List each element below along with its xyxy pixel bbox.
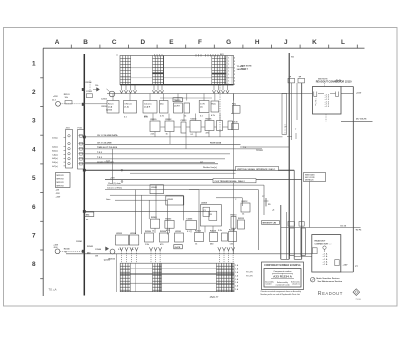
- diode arrows below top grids: [120, 85, 229, 94]
- title block component number example: [262, 262, 304, 290]
- wire vertical drop C1: [111, 149, 113, 184]
- wire heavy vertical bus J column: [288, 53, 290, 259]
- svg-text:+ 1 A: + 1 A: [323, 263, 328, 266]
- svg-text:R(1): R(1): [232, 104, 236, 106]
- transistor Q2325 cluster left: [53, 244, 110, 261]
- svg-text:(1): (1): [200, 107, 203, 109]
- svg-text:1 A: 1 A: [235, 278, 239, 281]
- resistor R2301 box: [151, 217, 160, 228]
- svg-text:8: 8: [32, 261, 36, 268]
- svg-text:1: 1: [228, 77, 229, 79]
- label near J bus top: [291, 57, 294, 59]
- svg-text:R2301: R2301: [151, 217, 158, 219]
- resistor R2303 box: [165, 218, 174, 228]
- svg-text:U2308: U2308: [201, 203, 208, 205]
- resistor R2126 box: [199, 101, 209, 113]
- svg-text:A-5(x): A-5(x): [52, 157, 58, 160]
- switch box S2120: [107, 101, 119, 114]
- wire gate bus 4: [106, 198, 168, 234]
- svg-text:1: 1: [228, 84, 229, 86]
- parts cluster B2 column: [85, 81, 109, 108]
- left voltage labels row 5: [56, 189, 61, 198]
- svg-text:+15V: +15V: [110, 178, 115, 180]
- svg-text:A23 R1234 A: A23 R1234 A: [273, 275, 292, 279]
- svg-text:TIME-SLOT PULSES: TIME-SLOT PULSES: [97, 147, 118, 149]
- svg-text:(1-4) R: (1-4) R: [144, 106, 151, 109]
- value labels smudge: [86, 113, 245, 251]
- wire bus blanking: [84, 162, 218, 164]
- note box parts list: [56, 173, 71, 188]
- top border line with ticks: [43, 45, 365, 49]
- svg-text:G: G: [226, 39, 231, 46]
- wire row6 to row7 connectors: [155, 226, 234, 233]
- svg-text:(1-4): (1-4): [125, 106, 130, 109]
- resistor R2332 box: [195, 231, 204, 242]
- shield loop H column: [282, 93, 287, 134]
- capacitor C2121 box: [124, 101, 137, 119]
- svg-text:+15V: +15V: [56, 197, 61, 199]
- svg-text:T-S 2: T-S 2: [97, 152, 103, 154]
- svg-text:10k: 10k: [65, 97, 69, 99]
- svg-text:+5: +5: [272, 209, 275, 211]
- pin numbers right of top grid: [228, 56, 246, 86]
- wire +15V feed: [341, 119, 373, 122]
- svg-text:TO J75: TO J75: [246, 272, 254, 274]
- svg-text:5: 5: [32, 175, 36, 182]
- svg-text:1 A: 1 A: [235, 271, 239, 274]
- connector strip J2101 pins: [66, 128, 82, 168]
- svg-text:J: J: [284, 39, 288, 46]
- svg-text:SEE NOTE: SEE NOTE: [318, 78, 328, 80]
- svg-text:1: 1: [228, 81, 229, 83]
- left border line with ticks: [40, 48, 43, 296]
- resistor R2236 box: [205, 119, 214, 131]
- capacitor C2239 box: [228, 121, 233, 130]
- svg-text:470: 470: [160, 243, 164, 246]
- wire vertical signal heavy: [84, 169, 294, 171]
- svg-text:2: 2: [234, 84, 235, 86]
- svg-text:U2240: U2240: [151, 186, 158, 189]
- label dark sig: [85, 212, 94, 217]
- label timing dark: [173, 98, 182, 102]
- svg-text:TO J76: TO J76: [246, 275, 254, 277]
- wire vertical bottom left: [115, 254, 117, 292]
- wire vertical J extra: [285, 212, 287, 259]
- svg-text:R2315: R2315: [238, 218, 245, 220]
- svg-text:A-7(x): A-7(x): [52, 165, 58, 168]
- svg-text:R2230: R2230: [151, 119, 158, 121]
- svg-text:U2242: U2242: [167, 198, 174, 201]
- svg-text:R2332: R2332: [195, 231, 202, 233]
- svg-text:C2105: C2105: [86, 91, 93, 93]
- wire K box to rail: [325, 83, 354, 121]
- label R2150: [109, 259, 116, 261]
- resistor R2313 box: [231, 214, 238, 228]
- transistor Q2101: [52, 96, 60, 106]
- svg-text:Column: Column: [144, 104, 152, 106]
- svg-text:1k: 1k: [132, 249, 135, 251]
- part number text: [210, 296, 219, 299]
- resistor R2101 cluster: [60, 88, 84, 105]
- resistor R2127 box: [211, 101, 219, 112]
- wire vertical drop H1: [293, 170, 295, 259]
- transistor Q2105: [106, 89, 115, 112]
- svg-text:-15V: -15V: [56, 193, 61, 195]
- svg-text:TP2201: TP2201: [256, 150, 264, 152]
- svg-text:Static Sensitive Devices: Static Sensitive Devices: [316, 277, 340, 280]
- svg-text:1 A: 1 A: [235, 288, 239, 291]
- svg-text:6: 6: [32, 204, 36, 211]
- wire row2 to row3 connectors: [153, 114, 220, 121]
- svg-text:circuit no: circuit no: [292, 283, 300, 286]
- IC U2110 character generator outer box: [120, 56, 234, 85]
- svg-text:CH 2 TRIGGER SIGNAL DIAG 2: CH 2 TRIGGER SIGNAL DIAG 2: [215, 180, 246, 183]
- wire thin vertical J2: [296, 83, 298, 120]
- svg-text:L: L: [341, 39, 345, 46]
- svg-text:MFR XX: MFR XX: [57, 185, 65, 187]
- svg-text:2.2k: 2.2k: [151, 134, 156, 136]
- resistor pack R2130 hatch column: [212, 56, 227, 85]
- svg-text:2: 2: [234, 67, 235, 69]
- svg-text:10k: 10k: [95, 85, 99, 87]
- svg-text:0.1: 0.1: [200, 116, 204, 118]
- svg-text:R9: R9: [268, 204, 270, 206]
- parts on F1 drop: [262, 196, 270, 206]
- svg-text:C2103: C2103: [101, 98, 108, 100]
- svg-text:Gate: Gate: [106, 198, 111, 201]
- svg-text:4.7k: 4.7k: [211, 114, 216, 117]
- wire thin vertical J1: [290, 83, 292, 140]
- test point wire row 5: [240, 147, 289, 152]
- wire long vertical G-H boundary: [232, 94, 239, 254]
- svg-text:Column x RT(1): Column x RT(1): [107, 188, 122, 190]
- svg-text:2: 2: [234, 71, 235, 73]
- title block footnote: [261, 290, 302, 296]
- svg-text:B(1): B(1): [220, 54, 224, 56]
- test point TP2111 box: [298, 77, 305, 83]
- svg-text:+15V: +15V: [356, 92, 362, 94]
- svg-text:C1: C1: [203, 210, 205, 212]
- svg-text:2: 2: [32, 89, 36, 96]
- svg-text:CH 1 COLUMN DATA: CH 1 COLUMN DATA: [97, 134, 118, 137]
- capacitor C2310 box: [203, 207, 210, 216]
- page number: [356, 299, 362, 301]
- svg-text:T: T: [295, 129, 297, 131]
- svg-text:1 A: 1 A: [235, 264, 239, 267]
- svg-text:1k: 1k: [195, 244, 198, 246]
- svg-text:E: E: [169, 39, 174, 46]
- svg-text:R2341: R2341: [76, 240, 83, 243]
- svg-text:4.7k: 4.7k: [166, 229, 171, 232]
- svg-text:0.1: 0.1: [191, 134, 195, 136]
- svg-text:2: 2: [234, 64, 235, 66]
- wire vertical drop G1: [263, 185, 265, 215]
- resistor R2338 box: [229, 230, 237, 242]
- svg-text:C2130: C2130: [232, 122, 238, 124]
- wire bus time slot 1: [84, 147, 262, 149]
- svg-text:680: 680: [210, 244, 214, 246]
- svg-text:R2303: R2303: [165, 218, 172, 220]
- svg-text:H: H: [255, 39, 260, 46]
- svg-text:7: 7: [32, 233, 36, 240]
- svg-text:W2: W2: [291, 57, 294, 59]
- svg-text:number: number: [265, 284, 272, 286]
- svg-text:2: 2: [234, 77, 235, 79]
- static sensitive devices note: [311, 277, 343, 283]
- svg-text:1k: 1k: [184, 116, 187, 118]
- amplifier box U2240: [150, 185, 164, 194]
- capacitor C2336 box: [222, 233, 228, 241]
- svg-text:U2324: U2324: [130, 232, 137, 235]
- svg-text:A-2(x): A-2(x): [52, 146, 58, 149]
- svg-text:U2235: U2235: [191, 119, 198, 121]
- svg-text:C2305: C2305: [186, 218, 193, 220]
- svg-text:R2150: R2150: [109, 259, 116, 261]
- svg-text:VERTICAL SIGNAL INTERFACE DI: VERTICAL SIGNAL INTERFACE DIAG 1: [237, 168, 276, 171]
- note box diag reference: [304, 173, 326, 182]
- wire vertical drop F1: [189, 190, 258, 250]
- wire connector to rail: [341, 264, 359, 272]
- capacitor C2125 box: [174, 103, 183, 113]
- svg-text:MFR XX: MFR XX: [57, 182, 65, 184]
- svg-text:1k: 1k: [166, 134, 169, 136]
- svg-text:1k: 1k: [242, 214, 245, 216]
- svg-text:number (if used): number (if used): [276, 284, 290, 286]
- wire secondary signal: [130, 172, 236, 174]
- wire gate bus 1: [107, 182, 264, 185]
- wire row3 link segments: [161, 126, 234, 128]
- svg-text:1W: 1W: [95, 256, 98, 258]
- wire vertical note box drop: [309, 182, 311, 228]
- svg-text:xx: xx: [116, 55, 118, 57]
- IC U2324 box: [129, 232, 139, 245]
- resistor R2125 box: [184, 103, 190, 113]
- svg-text:1: 1: [32, 60, 36, 67]
- svg-text:SEE NOTE: SEE NOTE: [241, 66, 252, 68]
- wire gate bus 2: [105, 188, 199, 190]
- svg-text:1: 1: [228, 61, 229, 63]
- svg-text:R2340: R2340: [64, 248, 71, 251]
- svg-text:0.1: 0.1: [187, 231, 191, 233]
- resistor R2326 box: [145, 231, 154, 246]
- wire right vertical K rail: [341, 87, 353, 273]
- svg-text:R2101: R2101: [64, 94, 71, 96]
- hatch column bottom grid B: [153, 263, 162, 292]
- svg-text:A 1(v): A 1(v): [52, 137, 58, 140]
- hatch column bottom grid A: [120, 263, 130, 292]
- svg-text:1k: 1k: [65, 252, 68, 254]
- svg-text:R2342: R2342: [87, 245, 94, 248]
- svg-text:2: 2: [234, 61, 235, 63]
- wire box drops: [155, 131, 220, 149]
- svg-text:Divider line(s): Divider line(s): [203, 166, 217, 169]
- pin labels right of bottom grid: [235, 264, 253, 291]
- readout connector J2170 box: [312, 235, 341, 272]
- svg-text:TO P5: TO P5: [356, 229, 363, 231]
- wire vertical bus J3: [301, 83, 303, 259]
- schematic title READOUT: [318, 291, 343, 297]
- resistor R2232 box: [165, 119, 174, 132]
- svg-text:See Maintenance Section: See Maintenance Section: [318, 280, 343, 283]
- svg-text:1: 1: [228, 67, 229, 69]
- svg-text:2.7k: 2.7k: [160, 115, 165, 117]
- svg-text:(1-4): (1-4): [108, 106, 113, 109]
- svg-text:TIMING: TIMING: [174, 100, 181, 102]
- connector pin labels: [52, 137, 65, 168]
- resistor pack R2120 hatch column: [153, 56, 164, 85]
- svg-text:71-18: 71-18: [356, 299, 362, 301]
- resistor R2315 box: [238, 218, 245, 229]
- resistor R2124 box: [160, 101, 169, 114]
- svg-text:1: 1: [228, 64, 229, 66]
- svg-text:1 A: 1 A: [235, 281, 239, 284]
- svg-text:C2344: C2344: [95, 248, 102, 251]
- svg-text:Chan (1) data: Chan (1) data: [108, 182, 122, 185]
- svg-text:INTENSITY LIM: INTENSITY LIM: [262, 223, 276, 225]
- diode arrows above bottom grid: [120, 247, 235, 263]
- svg-text:K: K: [312, 39, 317, 46]
- svg-text:U2330: U2330: [175, 231, 182, 233]
- svg-text:CH 2 COLUMN: CH 2 COLUMN: [97, 142, 112, 144]
- svg-text:+ 1 A: + 1 A: [323, 260, 328, 263]
- svg-text:xx: xx: [285, 126, 288, 128]
- wire bar outlet: [294, 256, 312, 258]
- interface marks J column: [285, 124, 298, 139]
- resistor R2334 box: [210, 230, 218, 242]
- resistor R2328 box: [160, 231, 169, 242]
- callout label trigger signal: [213, 179, 256, 183]
- resistor R2230 box: [150, 119, 160, 132]
- svg-text:+ 1 2: + 1 2: [325, 106, 330, 108]
- wire DC volts horizontal: [281, 225, 362, 231]
- wire long row 7 bus: [66, 253, 312, 255]
- svg-text:R2334: R2334: [210, 230, 217, 233]
- svg-text:4: 4: [32, 146, 36, 153]
- svg-text:READOUT: READOUT: [318, 291, 343, 297]
- wire trigger signal: [105, 178, 302, 183]
- svg-text:+15V: +15V: [53, 96, 58, 98]
- svg-text:1 A: 1 A: [235, 285, 239, 288]
- revision diamond symbol: [353, 289, 360, 296]
- capacitor C2305 box: [186, 218, 197, 229]
- IC U2235 box: [190, 119, 201, 132]
- svg-text:2: 2: [234, 58, 235, 60]
- resistor R2312 box: [241, 201, 250, 212]
- svg-text:1: 1: [228, 58, 229, 60]
- wire row5 upper: [84, 161, 215, 163]
- wire loop verticals D-E: [136, 185, 199, 234]
- resistor R2122 box: [143, 101, 157, 119]
- svg-text:1: 1: [228, 74, 229, 76]
- wire bus channel 1 data: [84, 134, 282, 137]
- resistor R2311 box: [209, 211, 217, 220]
- svg-text:+15V: +15V: [343, 264, 349, 266]
- svg-text:ROW DATA: ROW DATA: [210, 141, 222, 144]
- svg-text:5 Reset: 5 Reset: [125, 103, 132, 106]
- svg-text:COMPONENT NUMBER EXAMPLE: COMPONENT NUMBER EXAMPLE: [264, 264, 301, 267]
- svg-text:B-2(x): B-2(x): [52, 151, 58, 153]
- svg-text:D-6(x): D-6(x): [52, 162, 58, 164]
- svg-text:R2326: R2326: [145, 231, 152, 233]
- wire J pair bottom links: [281, 258, 302, 260]
- svg-text:1 A: 1 A: [235, 268, 239, 271]
- wire bus strobe: [84, 157, 225, 159]
- top pins above grids: [116, 54, 224, 56]
- svg-text:T-S 3: T-S 3: [97, 157, 103, 159]
- svg-text:1 A: 1 A: [235, 274, 239, 277]
- svg-text:xx: xx: [86, 219, 89, 221]
- resistor R2128 box: [232, 104, 240, 114]
- row numbers 1-8: [32, 60, 36, 268]
- svg-text:TO △A: TO △A: [49, 287, 57, 291]
- svg-text:Chassis-mounted components hav: Chassis-mounted components have no Assem…: [261, 290, 302, 293]
- wire bus channel 2 data: [84, 141, 240, 144]
- svg-text:B: B: [83, 39, 88, 46]
- svg-text:1k: 1k: [152, 230, 155, 232]
- svg-text:+ 1 A: + 1 A: [323, 258, 328, 261]
- readout connector J2110 header: [316, 78, 352, 83]
- svg-text:P7: P7: [355, 266, 358, 268]
- svg-text:R2312: R2312: [242, 201, 249, 203]
- wire row 6 link: [84, 210, 211, 212]
- svg-text:+5V: +5V: [56, 189, 60, 191]
- test point TP2110 box: [288, 77, 295, 83]
- label left of bars: [272, 209, 275, 211]
- svg-text:J2-1: J2-1: [52, 99, 57, 101]
- svg-text:R2338: R2338: [229, 230, 236, 232]
- IC U2308 outer box: [200, 203, 221, 226]
- capacitor C2233 box: [181, 120, 188, 133]
- note text H column: [241, 66, 252, 71]
- svg-text:R2313: R2313: [231, 214, 238, 216]
- connector block P2110 box: [313, 87, 342, 115]
- wire vertical drop H2: [280, 205, 282, 259]
- IC U2322 box: [116, 233, 129, 245]
- svg-text:Dim: Dim: [160, 104, 164, 106]
- wire dashed vertical D column: [219, 85, 221, 132]
- svg-text:C: C: [112, 39, 117, 46]
- wire gate bus 3: [110, 194, 183, 196]
- svg-text:DC VOLTS: DC VOLTS: [356, 119, 367, 121]
- row2 box pins: [113, 94, 233, 101]
- wire heavy vertical bus B column: [83, 54, 86, 296]
- svg-text:(1) RT: (1) RT: [174, 106, 180, 108]
- svg-text:CONNECTOR ○-○: CONNECTOR ○-○: [315, 242, 333, 245]
- svg-text:4520-77: 4520-77: [210, 296, 219, 299]
- amplifier box U2242: [166, 196, 184, 205]
- label +15V at K: [356, 92, 362, 94]
- connector strip P2101 pins: [78, 130, 85, 170]
- svg-text:1: 1: [228, 71, 229, 73]
- svg-text:DIAG 5: DIAG 5: [241, 68, 249, 71]
- svg-text:+ 1 A: + 1 A: [323, 253, 328, 256]
- svg-text:MFR XX: MFR XX: [57, 175, 65, 177]
- resistor pack R2110 hatch column: [120, 56, 131, 85]
- wire row2 link: [160, 97, 212, 99]
- svg-text:2: 2: [234, 74, 235, 76]
- top grid dark bottom rail: [120, 84, 234, 86]
- gate box U2330: [174, 231, 184, 249]
- svg-text:DETAILS: DETAILS: [305, 179, 314, 182]
- hatch column bottom grid C: [216, 263, 234, 292]
- connector grid J2150 outer box: [120, 263, 234, 292]
- svg-text:R(1): R(1): [212, 104, 216, 106]
- svg-text:C-4(x): C-4(x): [52, 153, 58, 156]
- svg-text:C: C: [235, 199, 237, 201]
- column letters A-L: [55, 39, 345, 46]
- svg-text:+ 1 A: + 1 A: [323, 255, 328, 258]
- svg-text:C1 R: C1 R: [200, 104, 205, 106]
